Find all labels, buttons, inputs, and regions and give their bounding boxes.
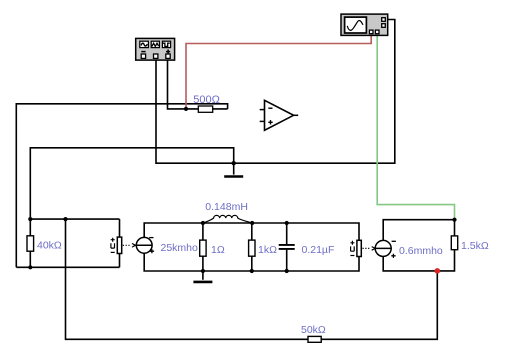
resistor 1ohm body <box>200 240 206 256</box>
svg-text:0.148mH: 0.148mH <box>205 201 248 213</box>
resistor 1.5k body <box>451 236 457 250</box>
oscilloscope XSC1 <box>341 14 388 35</box>
wire green: scope B terminal down, right, to 1.5k top node <box>377 34 454 219</box>
IC1 right side riser of left box <box>119 219 121 267</box>
wire: bottom rail right part up to red node <box>321 271 437 339</box>
ground symbol under 1ohm <box>193 271 212 282</box>
resistor 50k body <box>308 336 321 342</box>
resistor 500ohm body <box>198 106 212 112</box>
wire: FG COM terminal down and across to ground junction, then to scope G terminal <box>156 20 395 164</box>
svg-text:1.5kΩ: 1.5kΩ <box>461 240 489 252</box>
op-amp U1 <box>260 100 299 130</box>
wire red: scope A terminal to 500ohm left node <box>186 34 371 108</box>
right loop top rail <box>383 220 454 241</box>
wire: FG + terminal down to 500ohm left lead <box>168 58 228 109</box>
svg-text:1Ω: 1Ω <box>211 244 225 256</box>
dependent source 0.6mmho <box>375 240 396 258</box>
svg-text:50kΩ: 50kΩ <box>301 324 326 336</box>
wire: 40k top node up and across to ground junction <box>30 148 233 219</box>
node dots on rails <box>201 221 205 225</box>
resistor 1ohm leads <box>202 223 204 271</box>
svg-text:1kΩ: 1kΩ <box>258 244 277 256</box>
svg-text:25kmho: 25kmho <box>161 242 199 254</box>
mid loop bottom rail <box>144 253 359 271</box>
node: ground junction dot <box>232 161 236 165</box>
resistor 40k body <box>27 236 34 251</box>
svg-text:0.21µF: 0.21µF <box>302 244 335 256</box>
resistor 1.5k lead top <box>454 220 456 236</box>
capacitor 0.21uF <box>279 223 295 271</box>
right loop bottom rail <box>383 250 454 271</box>
red node dot <box>435 268 441 274</box>
dotted control arrow 1 <box>123 244 136 248</box>
svg-text:40kΩ: 40kΩ <box>37 240 62 252</box>
left box: top rail <box>30 218 119 220</box>
IC2 initial-condition sense element <box>350 240 361 256</box>
IC1 initial-condition sense element <box>111 237 122 253</box>
inductor 0.148mH <box>203 215 252 223</box>
dotted control arrow 2 <box>363 247 376 251</box>
svg-text:500Ω: 500Ω <box>193 94 220 106</box>
resistor 1k leads <box>251 223 253 271</box>
dependent source 25kmho <box>136 237 154 253</box>
ground symbol at ground junction <box>224 163 243 176</box>
node: 500ohm left junction dot <box>184 107 188 111</box>
resistor 1k body <box>249 240 255 256</box>
wire: feedback from 500ohm right terminal over resistor, left and down to bottom-left rail <box>16 104 227 267</box>
svg-text:0.6mmho: 0.6mmho <box>399 245 443 257</box>
wire: left box to bottom rail (drop at x=65.5) <box>66 219 309 339</box>
mid loop top rail <box>144 223 359 240</box>
left box: bottom rail <box>16 266 119 268</box>
function generator XFG1 <box>136 38 175 60</box>
resistor 40k leads <box>29 219 31 267</box>
